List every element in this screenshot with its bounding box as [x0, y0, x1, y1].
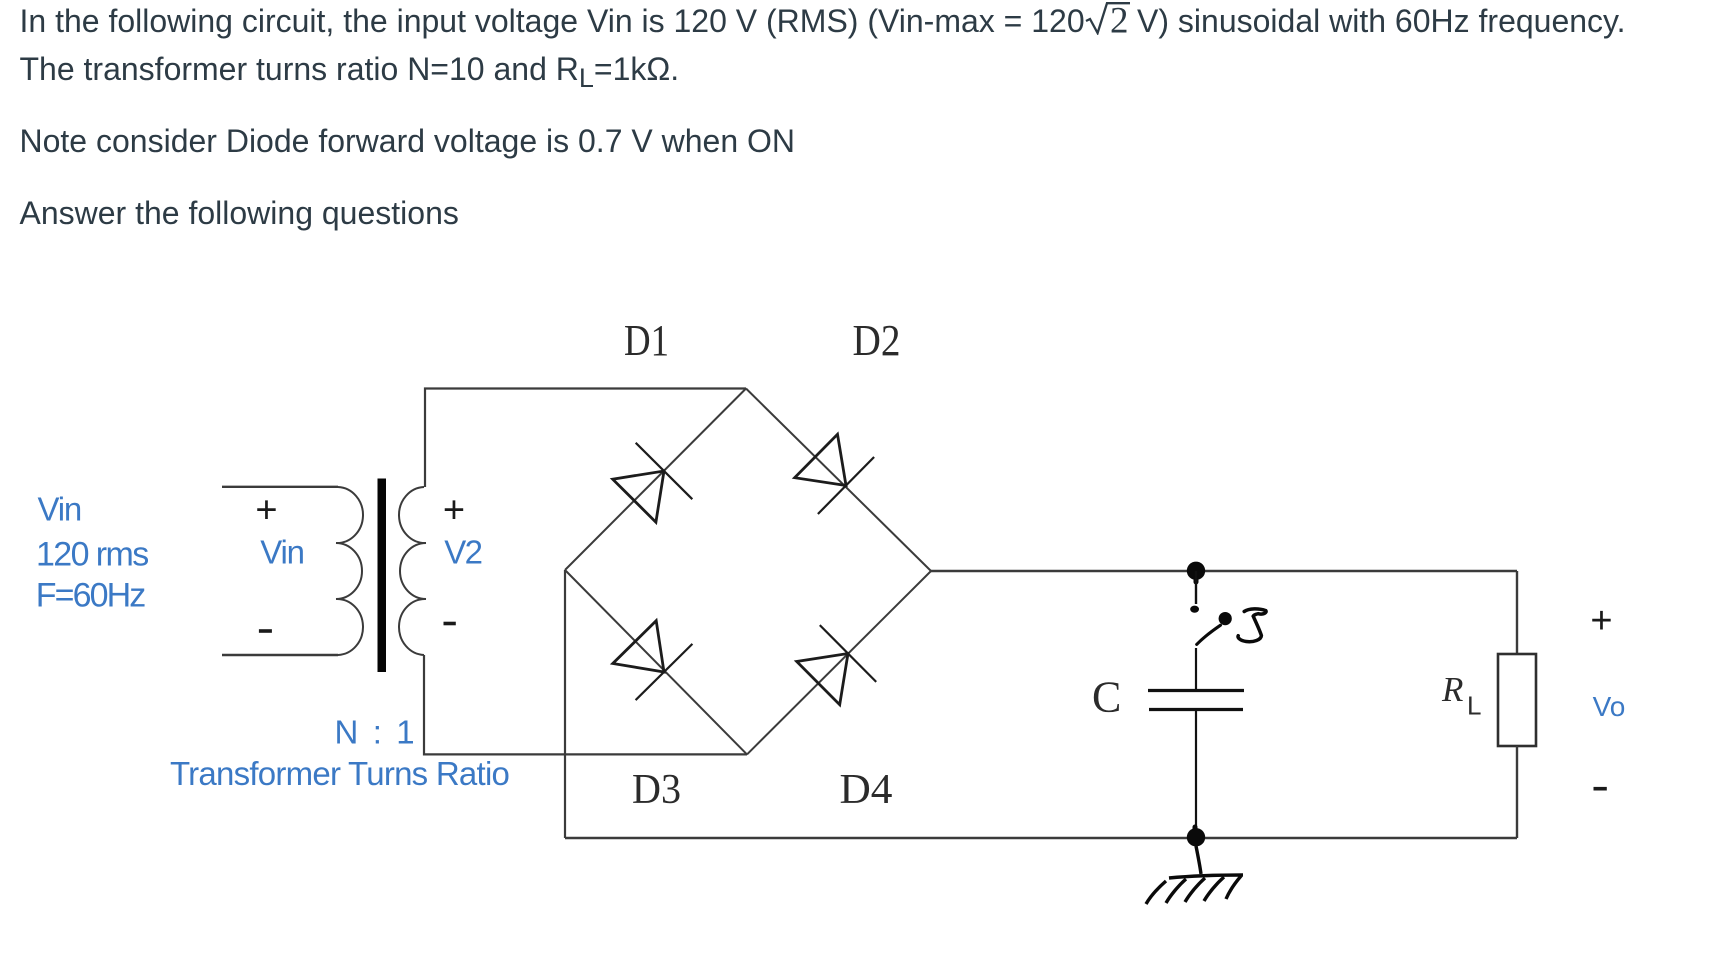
svg-text:Vo: Vo	[1593, 691, 1626, 722]
switch S arm	[1197, 625, 1221, 644]
capacitor C bottom plate	[1149, 708, 1243, 711]
node bottom junction	[1187, 828, 1205, 846]
node top junction	[1187, 562, 1205, 580]
ground bar	[1169, 875, 1243, 878]
minus mark primary	[259, 629, 272, 633]
svg-text:120 rms: 120 rms	[36, 536, 148, 574]
ground hatch 5	[1226, 876, 1241, 899]
wire secondary top to bridge	[425, 389, 746, 488]
svg-text:F=60Hz: F=60Hz	[36, 577, 145, 615]
wire bottom rail	[565, 837, 1517, 839]
switch S lower contact dot	[1190, 606, 1199, 613]
svg-text:+: +	[443, 490, 465, 532]
diode D1	[613, 443, 693, 522]
resistor RL body	[1498, 654, 1536, 746]
transformer core bar	[378, 479, 387, 673]
wire secondary bottom to bridge	[424, 655, 747, 754]
diode D4	[797, 625, 877, 705]
wire bridge edge left-top	[565, 389, 746, 571]
label S	[1238, 609, 1266, 642]
wire capacitor to bottom node	[1195, 711, 1197, 837]
minus mark secondary	[444, 622, 456, 626]
svg-text:+: +	[255, 490, 277, 532]
wire bridge left corner down	[564, 570, 566, 838]
svg-text:D1: D1	[624, 316, 669, 365]
transformer primary winding	[336, 487, 363, 655]
wire switch to capacitor	[1195, 648, 1197, 689]
transformer secondary winding	[399, 487, 426, 655]
diode D2	[795, 434, 874, 514]
minus mark output	[1594, 787, 1607, 791]
wire right rail down to resistor	[1516, 571, 1518, 654]
svg-text:L: L	[1467, 691, 1481, 721]
wire primary bottom lead	[222, 654, 338, 656]
svg-text:Vin: Vin	[260, 534, 304, 571]
switch S arm dot	[1219, 612, 1232, 625]
wire bridge edge top-right	[746, 389, 931, 572]
svg-text:D2: D2	[853, 316, 901, 365]
wire resistor to bottom rail	[1516, 746, 1518, 838]
svg-text:D4: D4	[840, 767, 893, 813]
svg-text:Vin: Vin	[38, 491, 82, 528]
svg-text:C: C	[1092, 673, 1121, 722]
diode D3	[613, 621, 693, 700]
wire bridge edge left-bottom	[565, 570, 747, 754]
svg-text:D3: D3	[632, 767, 681, 813]
svg-text:N : 1: N : 1	[335, 714, 418, 751]
svg-text:+: +	[1590, 600, 1612, 642]
wire bridge edge bottom-right	[747, 571, 931, 754]
ground hatch 1	[1146, 881, 1166, 904]
wire top rail	[931, 570, 1517, 572]
label RL	[1441, 670, 1481, 721]
ground hatch 2	[1166, 879, 1186, 903]
svg-text:R: R	[1441, 670, 1463, 709]
svg-text:Transformer Turns Ratio: Transformer Turns Ratio	[170, 755, 509, 792]
svg-text:V2: V2	[444, 534, 481, 571]
source label Vin 120 rms F=60Hz	[36, 491, 148, 615]
ground hatch 3	[1185, 878, 1205, 902]
wire primary top lead	[222, 486, 338, 488]
ground stub	[1196, 846, 1201, 874]
capacitor C top plate	[1148, 689, 1244, 692]
switch S stub	[1195, 571, 1197, 604]
ground hatch 4	[1204, 877, 1224, 901]
